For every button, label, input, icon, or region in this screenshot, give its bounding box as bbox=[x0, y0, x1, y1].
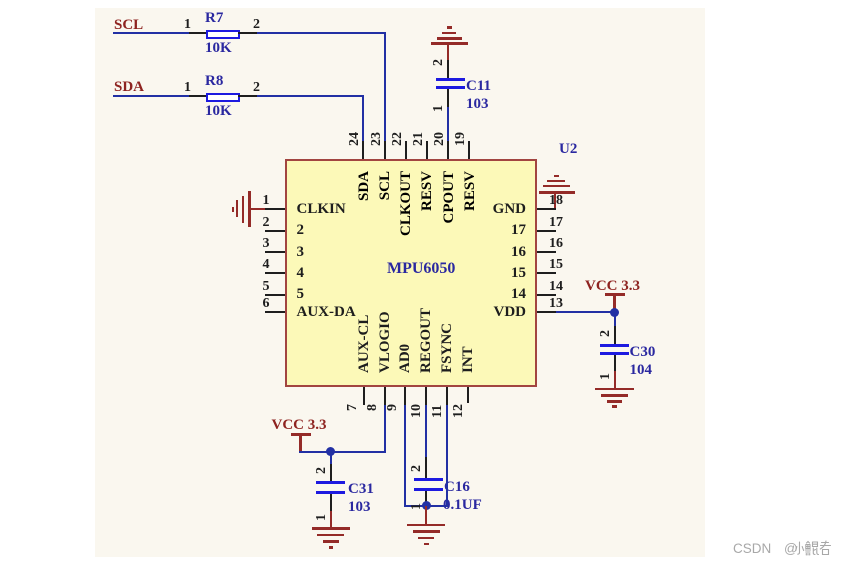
wire pin 11 down bbox=[446, 405, 448, 507]
pin number 1 of C16 bbox=[410, 503, 424, 510]
pin name AUX-CL bbox=[357, 315, 372, 373]
wire pin 8 down bbox=[384, 405, 386, 453]
junction node C31 bbox=[326, 447, 335, 456]
pin number 17 bbox=[549, 216, 563, 230]
chip pin 19 stub bbox=[468, 141, 470, 159]
chip pin 6 stub bbox=[265, 311, 285, 313]
wire pin 11 to C16 node bbox=[426, 505, 448, 507]
chip pin 5 stub bbox=[265, 294, 285, 296]
pin name CPOUT bbox=[442, 171, 457, 224]
chip pin 2 stub bbox=[265, 230, 285, 232]
chip pin 12 stub bbox=[467, 387, 469, 403]
pin number 1 of C31 bbox=[315, 514, 329, 521]
capacitor C30 pin 2 bbox=[614, 326, 616, 344]
pin number 12 bbox=[452, 404, 466, 418]
chip pin 22 stub bbox=[405, 141, 407, 159]
capacitor C16 pin 2 bbox=[425, 457, 427, 479]
pin name VDD bbox=[466, 305, 526, 320]
pin number 2 of R7 bbox=[253, 18, 260, 32]
wire SCL to R7 pin1 bbox=[113, 32, 190, 34]
wire VCC to pin 8 column bbox=[299, 451, 386, 453]
capacitor C31 pin 1 bbox=[330, 494, 332, 511]
chip pin 17 stub bbox=[537, 230, 556, 232]
VCC bar right bbox=[605, 293, 625, 296]
pin number 2 of C11 bbox=[432, 59, 446, 66]
resistor R7 body bbox=[206, 30, 240, 39]
pin number 9 bbox=[386, 404, 400, 411]
ground above C11 bbox=[431, 42, 468, 45]
pin name SDA bbox=[357, 171, 372, 201]
pin name 17r bbox=[466, 223, 526, 238]
chip value label MPU6050 bbox=[387, 261, 455, 276]
designator R7 bbox=[205, 11, 223, 26]
pin number 14 bbox=[549, 280, 563, 294]
pin name GND bbox=[466, 202, 526, 217]
ground below C16 bbox=[407, 524, 445, 527]
wire node down to C31 bbox=[330, 452, 332, 464]
resistor R8 body bbox=[206, 93, 240, 102]
pin number 3 bbox=[250, 237, 270, 251]
wire R7 pin2 to corner bbox=[257, 32, 386, 34]
capacitor C31 plates bbox=[316, 481, 345, 484]
resistor R7 pin 1 bbox=[189, 32, 207, 34]
chip pin 11 stub bbox=[446, 387, 448, 405]
net label VCC 3.3 bottom bbox=[272, 418, 327, 433]
schematic sheet background bbox=[95, 8, 705, 557]
wire node down to C30 bbox=[614, 312, 616, 326]
chip pin 16 stub bbox=[537, 251, 556, 253]
capacitor C16 pin 1 bbox=[425, 491, 427, 506]
value 10K of R7 bbox=[205, 41, 232, 56]
pin name CLKOUT bbox=[399, 171, 414, 236]
pin name RESV bbox=[420, 171, 435, 211]
pin number 23 bbox=[370, 132, 384, 146]
designator U2 bbox=[559, 142, 577, 157]
pin number 20 bbox=[433, 132, 447, 146]
wire vertical SDA down to pin 24 bbox=[362, 95, 364, 142]
chip pin 15 stub bbox=[537, 272, 556, 274]
chip pin 13 stub bbox=[537, 311, 557, 313]
chip pin 21 stub bbox=[426, 141, 428, 159]
capacitor C30 pin 1 bbox=[614, 355, 616, 371]
wire pin13 to VCC node bbox=[556, 311, 615, 313]
pin number 13 bbox=[549, 297, 563, 311]
pin number 1 of R7 bbox=[184, 18, 191, 32]
pin number 1 bbox=[250, 194, 270, 208]
wire R8 pin2 to corner bbox=[257, 95, 364, 97]
pin name VLOGIO bbox=[378, 311, 393, 373]
watermark CJK glyphs bbox=[795, 540, 831, 557]
wire pin 9 to C16 node bbox=[404, 505, 427, 507]
capacitor C11 plates bbox=[436, 78, 465, 81]
chip pin 3 stub bbox=[265, 251, 285, 253]
chip pin 10 stub bbox=[425, 387, 427, 405]
chip pin 9 stub bbox=[404, 387, 406, 405]
net label SCL bbox=[114, 18, 143, 33]
net label SDA bbox=[114, 80, 144, 95]
designator C30 bbox=[630, 345, 656, 360]
resistor R8 pin 2 bbox=[238, 95, 257, 97]
pin name SCL bbox=[378, 171, 393, 200]
pin number 2 of C16 bbox=[410, 465, 424, 472]
pin number 2 of C30 bbox=[599, 330, 613, 337]
wire C11 to pin 20 bbox=[447, 107, 449, 142]
pin name RESV2 bbox=[463, 171, 478, 211]
pin name 14r bbox=[466, 287, 526, 302]
junction node VDD bbox=[610, 308, 619, 317]
pin name INT bbox=[461, 346, 476, 373]
pin number 11 bbox=[431, 404, 445, 417]
capacitor C31 pin 2 bbox=[330, 464, 332, 481]
junction node C16 bbox=[422, 501, 431, 510]
pin number 21 bbox=[412, 132, 426, 146]
VCC stem bottom bbox=[299, 436, 302, 452]
pin name FSYNC bbox=[440, 323, 455, 373]
value 10K of R8 bbox=[205, 104, 232, 119]
value 104 of C30 bbox=[630, 363, 653, 378]
chip pin 20 stub bbox=[447, 141, 449, 159]
pin number 4 bbox=[250, 258, 270, 272]
watermark CSDN bbox=[733, 541, 771, 556]
wire C30 to ground bbox=[614, 371, 616, 388]
capacitor C30 plates bbox=[600, 344, 629, 347]
ground at chip pin 18 bbox=[539, 191, 575, 194]
pin name 2 bbox=[297, 223, 305, 238]
pin name REGOUT bbox=[419, 308, 434, 373]
resistor R7 pin 2 bbox=[238, 32, 257, 34]
ground at chip pin 1 bbox=[248, 191, 251, 227]
chip U2 body MPU6050 bbox=[285, 159, 537, 387]
chip pin 18 stub bbox=[537, 208, 556, 210]
designator R8 bbox=[205, 74, 223, 89]
capacitor C11 pin 1 bbox=[447, 89, 449, 107]
net label VCC 3.3 right bbox=[585, 279, 640, 294]
pin number 2 of C31 bbox=[315, 467, 329, 474]
wire SDA to R8 pin1 bbox=[113, 95, 190, 97]
pin number 19 bbox=[454, 132, 468, 146]
pin number 24 bbox=[348, 132, 362, 146]
chip pin 14 stub bbox=[537, 294, 556, 296]
chip pin 1 stub bbox=[265, 208, 285, 210]
watermark @ bbox=[784, 541, 798, 556]
pin name 15r bbox=[466, 266, 526, 281]
pin number 6 bbox=[250, 297, 270, 311]
designator C31 bbox=[348, 482, 374, 497]
chip pin 8 stub bbox=[384, 387, 386, 405]
wire vertical SCL down to pin 23 bbox=[384, 32, 386, 142]
wire C31 to ground bbox=[330, 511, 332, 528]
chip pin 4 stub bbox=[265, 272, 285, 274]
pin number 5 bbox=[250, 280, 270, 294]
chip pin 7 stub bbox=[363, 387, 365, 405]
pin number 10 bbox=[410, 404, 424, 418]
pin name CLKIN bbox=[297, 202, 346, 217]
chip pin 23 stub bbox=[384, 141, 386, 159]
pin number 2 of R8 bbox=[253, 81, 260, 95]
value 103 of C31 bbox=[348, 500, 371, 515]
pin number 7 bbox=[346, 404, 360, 411]
designator C16 bbox=[444, 480, 470, 495]
ground below C31 bbox=[312, 527, 350, 530]
pin number 15 bbox=[549, 258, 563, 272]
pin number 22 bbox=[391, 132, 405, 146]
wire pin 9 down bbox=[404, 405, 406, 507]
VCC stem right bbox=[613, 296, 616, 312]
VCC bar bottom bbox=[291, 433, 311, 436]
wire C16 to ground bbox=[425, 506, 427, 524]
pin number 16 bbox=[549, 237, 563, 251]
capacitor C11 pin 2 bbox=[447, 60, 449, 78]
ground below C30 bbox=[595, 388, 633, 391]
value 0.1UF of C16 bbox=[443, 498, 482, 513]
value 103 of C11 bbox=[466, 97, 489, 112]
pin name 4 bbox=[297, 266, 305, 281]
pin name AUX-DA bbox=[297, 305, 356, 320]
pin name 16r bbox=[466, 245, 526, 260]
pin number 2 bbox=[250, 216, 270, 230]
pin number 1 of C30 bbox=[599, 373, 613, 380]
designator C11 bbox=[466, 79, 491, 94]
pin name AD0 bbox=[398, 344, 413, 373]
pin number 18 bbox=[549, 194, 563, 208]
resistor R8 pin 1 bbox=[189, 95, 207, 97]
pin name 3 bbox=[297, 245, 305, 260]
capacitor C16 plates bbox=[414, 478, 443, 481]
pin number 8 bbox=[366, 404, 380, 411]
pin number 1 of C11 bbox=[432, 105, 446, 112]
chip pin 24 stub bbox=[362, 141, 364, 159]
wire pin 10 down bbox=[425, 405, 427, 458]
pin name 5 bbox=[297, 287, 305, 302]
pin number 1 of R8 bbox=[184, 81, 191, 95]
